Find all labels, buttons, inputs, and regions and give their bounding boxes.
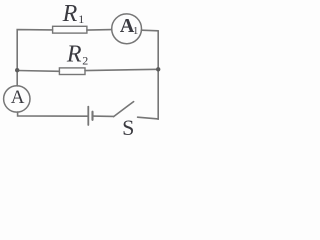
svg-text:2: 2 [82, 54, 88, 68]
svg-text:A: A [11, 87, 25, 108]
svg-text:1: 1 [133, 25, 139, 37]
svg-text:R: R [62, 1, 78, 27]
svg-text:R: R [66, 41, 82, 67]
svg-text:S: S [122, 115, 134, 138]
svg-text:1: 1 [78, 12, 84, 26]
